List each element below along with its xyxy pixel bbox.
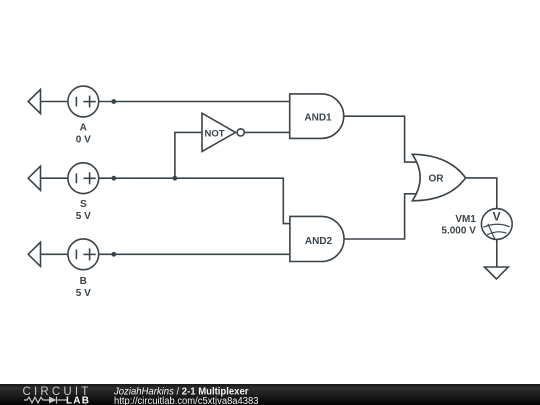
svg-text:S: S xyxy=(80,199,87,210)
svg-text:LAB: LAB xyxy=(66,395,90,405)
svg-text:5.000 V: 5.000 V xyxy=(441,225,476,236)
svg-text:A: A xyxy=(80,123,87,134)
svg-text:5 V: 5 V xyxy=(76,211,91,222)
svg-text:5 V: 5 V xyxy=(76,288,91,299)
svg-text:AND1: AND1 xyxy=(304,113,332,124)
svg-text:OR: OR xyxy=(429,174,445,185)
svg-text:B: B xyxy=(80,276,87,287)
svg-text:http://circuitlab.com/c5xtjva8: http://circuitlab.com/c5xtjva8a4383 xyxy=(114,396,259,405)
svg-text:V: V xyxy=(493,209,501,223)
svg-text:AND2: AND2 xyxy=(305,236,333,247)
svg-text:NOT: NOT xyxy=(204,128,224,139)
svg-text:0 V: 0 V xyxy=(76,134,91,145)
svg-text:VM1: VM1 xyxy=(455,214,476,225)
